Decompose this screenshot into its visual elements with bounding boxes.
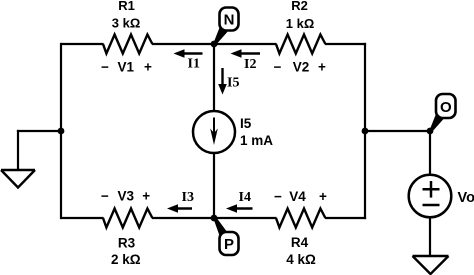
junction right branch tap [362, 128, 369, 135]
wire bottom-middle segment [152, 217, 277, 219]
resistor R2 [276, 35, 325, 54]
svg-text:1 mA: 1 mA [240, 133, 273, 148]
svg-text:N: N [224, 12, 235, 29]
svg-text:+: + [319, 189, 327, 204]
svg-text:I4: I4 [239, 190, 251, 205]
wire bottom-right segment [325, 217, 366, 219]
resistor R4 [276, 209, 325, 228]
svg-text:I3: I3 [182, 190, 194, 205]
wire middle vertical upper [213, 44, 215, 112]
current arrow I5 (top) [218, 68, 227, 95]
svg-text:V3: V3 [118, 188, 135, 203]
node O box [429, 94, 456, 132]
svg-text:Vo: Vo [458, 190, 474, 206]
svg-text:I2: I2 [244, 57, 256, 72]
current arrow I1 [174, 49, 203, 58]
wire bottom-left segment [61, 217, 104, 219]
resistor R3 [103, 209, 152, 228]
node N box [213, 8, 239, 46]
svg-text:−: − [101, 60, 109, 75]
ground left [1, 170, 35, 188]
current arrow I3 [167, 204, 192, 213]
svg-text:2 kΩ: 2 kΩ [111, 252, 141, 267]
svg-text:V4: V4 [289, 189, 306, 204]
junction node O dot [427, 128, 434, 135]
svg-text:−: − [274, 189, 282, 204]
svg-text:R4: R4 [291, 235, 309, 250]
node P box [213, 217, 239, 255]
ground right (below Vo) [413, 256, 449, 274]
current source I5 [193, 111, 235, 153]
svg-text:I1: I1 [188, 57, 200, 72]
wire top-left segment [61, 43, 104, 45]
wire node O branch vertical to source [429, 131, 431, 176]
svg-text:R3: R3 [118, 235, 136, 250]
wire middle vertical lower [213, 153, 215, 219]
junction node P dot [211, 215, 218, 222]
wire node O branch horizontal [365, 130, 430, 132]
svg-text:+: + [318, 60, 326, 75]
svg-text:−: − [274, 60, 282, 75]
wire ground branch left horizontal [17, 130, 61, 132]
wire below voltage source [429, 218, 431, 257]
junction left ground tap [58, 128, 65, 135]
wire top-middle segment [152, 43, 277, 45]
svg-text:1 kΩ: 1 kΩ [286, 16, 315, 31]
svg-text:O: O [440, 99, 452, 116]
svg-text:V2: V2 [293, 60, 310, 75]
current arrow I2 [231, 49, 261, 58]
wire top-right segment [325, 43, 366, 45]
svg-text:3 kΩ: 3 kΩ [112, 15, 141, 30]
junction node N dot [211, 41, 218, 48]
svg-text:R2: R2 [291, 0, 308, 13]
svg-text:+: + [144, 60, 152, 75]
voltage source Vo [409, 175, 452, 218]
svg-text:V1: V1 [117, 60, 134, 75]
svg-text:I5: I5 [240, 116, 252, 131]
svg-text:+: + [142, 188, 150, 203]
svg-text:P: P [224, 236, 234, 253]
wire left vertical [60, 43, 62, 219]
wire right vertical [364, 43, 366, 219]
svg-text:4 kΩ: 4 kΩ [286, 252, 316, 267]
svg-text:I5: I5 [227, 76, 239, 91]
wire ground branch left vertical [17, 130, 19, 170]
current arrow I4 [226, 204, 253, 213]
svg-text:R1: R1 [118, 0, 135, 13]
svg-text:−: − [101, 188, 109, 203]
resistor R1 [103, 35, 152, 54]
